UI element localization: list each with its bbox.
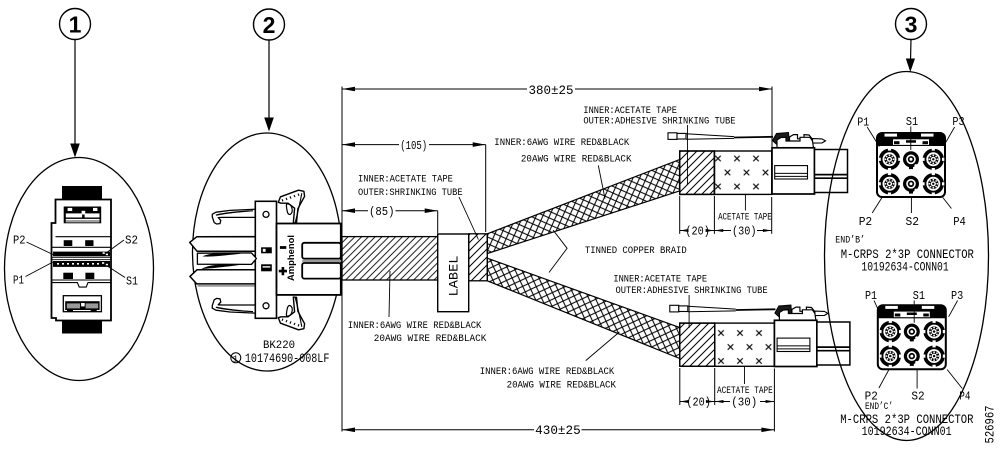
svg-text:BK220: BK220: [263, 340, 295, 352]
svg-text:INNER:ACETATE TAPE: INNER:ACETATE TAPE: [583, 106, 677, 117]
contact P4: [923, 345, 945, 367]
svg-text:S1: S1: [906, 115, 918, 129]
svg-text:20AWG WIRE RED&BLACK: 20AWG WIRE RED&BLACK: [507, 381, 616, 392]
plug P2 output blade slots: [302, 243, 341, 279]
svg-text:INNER:6AWG WIRE RED&BLACK: INNER:6AWG WIRE RED&BLACK: [480, 367, 615, 378]
svg-text:2: 2: [263, 12, 276, 38]
svg-text:10192634-CONN01: 10192634-CONN01: [861, 260, 948, 275]
contact S2: [903, 176, 919, 194]
contact P1: [879, 321, 901, 343]
connector 1 bottom module: [62, 296, 102, 334]
label P1: [13, 262, 53, 288]
callout circle 2: [254, 9, 285, 40]
lower connector C2 side view: [774, 305, 850, 367]
note inner acetate tape / outer adhesive shrinking tube (lower): [613, 275, 767, 329]
label P2: [13, 234, 54, 256]
dimension (85): [342, 208, 438, 233]
note inner 6awg wire (left): [348, 271, 487, 345]
dimension (20) upper: [680, 196, 715, 234]
svg-text:OUTER:ADHESIVE SHRINKING TUBE: OUTER:ADHESIVE SHRINKING TUBE: [616, 286, 768, 297]
plug P2 lower blade: [190, 270, 256, 286]
dimension 380±25: [342, 87, 772, 432]
svg-text:P2: P2: [859, 215, 873, 229]
svg-text:(20): (20): [686, 397, 711, 410]
svg-text:P3: P3: [952, 115, 964, 129]
note inner acetate tape / outer adhesive shrinking tube (upper): [583, 106, 735, 185]
callout leader arrow 3: [906, 40, 915, 73]
svg-text:20AWG WIRE RED&BLACK: 20AWG WIRE RED&BLACK: [521, 154, 632, 165]
note acetate tape (upper): [718, 194, 772, 223]
LABEL box: [438, 234, 469, 312]
plug P2 upper blade: [190, 237, 256, 252]
svg-text:INNER:6AWG WIRE RED&BLACK: INNER:6AWG WIRE RED&BLACK: [348, 321, 482, 332]
detail ellipse 3: [825, 72, 989, 441]
label S2: [106, 234, 138, 254]
contact P3: [922, 148, 944, 170]
dimension 430±25: [342, 369, 774, 433]
connector 1 side view body: [52, 186, 112, 321]
svg-text:P2: P2: [13, 234, 26, 248]
callout leader arrow 1: [70, 40, 80, 158]
label S1: [107, 266, 139, 289]
detail ellipse 1: [5, 158, 154, 381]
plug P2 middle blade tip over plate: [251, 253, 256, 265]
svg-text:ACETATE TAPE: ACETATE TAPE: [717, 386, 773, 397]
svg-text:P4: P4: [953, 215, 966, 229]
END C caption: [840, 401, 973, 439]
svg-text:526967: 526967: [984, 406, 998, 444]
CRPS connector face END B: [877, 133, 945, 197]
plug P2 right body with Amphenol logo: [261, 224, 341, 295]
upper acetate tape section: [714, 151, 771, 194]
svg-text:ACETATE TAPE: ACETATE TAPE: [718, 212, 772, 223]
svg-text:10192634-CONN01: 10192634-CONN01: [862, 424, 952, 439]
contact S1: [903, 151, 919, 169]
lower adhesive shrink tube section: [680, 323, 715, 366]
svg-text:1: 1: [69, 12, 82, 38]
note inner 6awg wire (upper): [494, 138, 631, 199]
upper braid branch: [487, 160, 679, 254]
plug P2 middle contact blade: [197, 253, 256, 269]
plug P2 top-right latch arm: [278, 190, 304, 223]
svg-text:(30): (30): [732, 226, 757, 239]
dimension (30) upper: [714, 197, 771, 234]
svg-text:(20): (20): [685, 226, 710, 239]
END C pin labels: [865, 289, 971, 404]
svg-text:S2: S2: [906, 215, 920, 229]
svg-text:INNER:ACETATE TAPE: INNER:ACETATE TAPE: [613, 275, 707, 286]
svg-text:END’B’: END’B’: [835, 234, 865, 246]
CRPS connector face END C: [878, 305, 946, 369]
svg-text:S2: S2: [125, 234, 138, 248]
END B pin labels: [857, 115, 966, 229]
svg-text:(85): (85): [369, 206, 395, 219]
upper adhesive shrink tube section: [680, 151, 715, 194]
lower braid branch: [487, 258, 680, 358]
dimension (20) lower: [680, 368, 715, 405]
svg-text:3: 3: [905, 12, 918, 38]
connector 1 middle contact rows: [52, 237, 112, 287]
contact S2: [904, 348, 920, 366]
connector 1 top module: [64, 207, 101, 224]
svg-text:Amphenol: Amphenol: [286, 235, 296, 281]
contact P1: [879, 148, 901, 170]
svg-text:P1: P1: [13, 274, 24, 288]
svg-text:P1: P1: [865, 289, 877, 303]
svg-text:P4: P4: [959, 390, 970, 404]
svg-text:LABEL: LABEL: [448, 256, 462, 297]
svg-text:380±25: 380±25: [529, 84, 574, 98]
svg-text:20AWG WIRE RED&BLACK: 20AWG WIRE RED&BLACK: [374, 334, 487, 345]
upper connector C1 side view: [772, 133, 848, 195]
contact P4: [922, 173, 944, 195]
callout circle 3: [896, 9, 927, 40]
plug P2 top hook prong: [212, 209, 256, 224]
note inner 6awg wire (lower): [480, 332, 620, 392]
dimension (30) lower: [715, 400, 775, 403]
plug P2 bottom-right latch arm: [278, 297, 304, 330]
part number 10174690-008LF: [231, 352, 330, 366]
svg-text:430±25: 430±25: [535, 424, 581, 438]
svg-text:S1: S1: [126, 275, 138, 289]
svg-text:TINNED COPPER BRAID: TINNED COPPER BRAID: [585, 246, 687, 257]
contact P3: [923, 321, 945, 343]
plug P2 central plate: [255, 201, 276, 318]
svg-text:OUTER:SHRINKING TUBE: OUTER:SHRINKING TUBE: [358, 188, 463, 199]
svg-text:(30): (30): [731, 397, 757, 410]
svg-text:INNER:6AWG WIRE RED&BLACK: INNER:6AWG WIRE RED&BLACK: [494, 138, 629, 149]
END B caption: [835, 234, 974, 274]
svg-text:INNER:ACETATE TAPE: INNER:ACETATE TAPE: [358, 175, 453, 186]
lower acetate tape section: [715, 323, 775, 366]
plug P2 bottom hook prong: [212, 298, 256, 313]
note inner acetate tape / outer shrinking tube (left): [358, 175, 478, 240]
note acetate tape (lower): [717, 366, 773, 397]
callout circle 1: [60, 9, 91, 40]
note tinned copper braid: [549, 230, 687, 272]
cable shrink tube section: [342, 237, 438, 280]
contact S1: [904, 324, 920, 342]
svg-text:(105): (105): [400, 140, 427, 153]
contact P2: [879, 173, 901, 195]
svg-text:1: 1: [233, 354, 238, 364]
contact P2: [879, 345, 901, 367]
upper sense wire: [668, 133, 773, 140]
callout leader arrow 2: [264, 40, 274, 132]
lower sense wire: [670, 305, 776, 312]
svg-text:10174690-008LF: 10174690-008LF: [245, 352, 330, 366]
cable tube section after label: [469, 234, 488, 281]
svg-text:OUTER:ADHESIVE SHRINKING TUBE: OUTER:ADHESIVE SHRINKING TUBE: [583, 116, 735, 127]
svg-text:S2: S2: [911, 390, 924, 404]
dimension (105): [342, 142, 486, 232]
detail ellipse 2: [193, 133, 342, 371]
